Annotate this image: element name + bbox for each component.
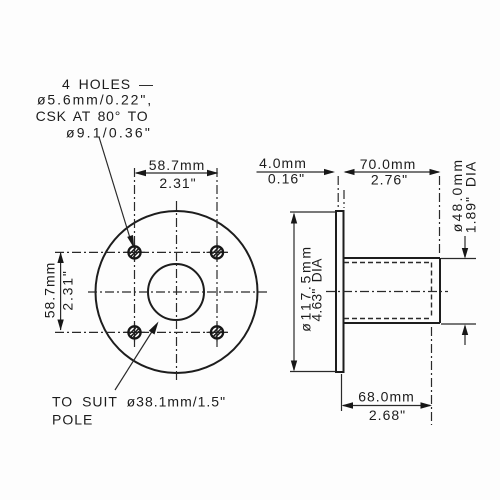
svg-text:TO SUIT ø38.1mm/1.5": TO SUIT ø38.1mm/1.5": [52, 394, 226, 410]
svg-text:POLE: POLE: [52, 412, 93, 428]
svg-text:CSK AT 80° TO: CSK AT 80° TO: [36, 108, 149, 124]
svg-text:0.16": 0.16": [268, 171, 305, 187]
svg-text:2.76": 2.76": [371, 172, 408, 188]
svg-text:2.68": 2.68": [369, 407, 406, 423]
svg-text:58.7mm: 58.7mm: [149, 157, 206, 173]
svg-text:2.31": 2.31": [159, 175, 196, 191]
svg-text:70.0mm: 70.0mm: [360, 156, 417, 172]
svg-text:2.31": 2.31": [60, 269, 76, 310]
svg-text:4.63" DIA: 4.63" DIA: [309, 258, 325, 322]
svg-text:1.89" DIA: 1.89" DIA: [463, 161, 479, 233]
svg-text:4 HOLES —: 4 HOLES —: [62, 76, 154, 92]
svg-text:58.7mm: 58.7mm: [42, 262, 58, 319]
svg-text:68.0mm: 68.0mm: [358, 389, 415, 405]
svg-text:4.0mm: 4.0mm: [259, 155, 307, 171]
svg-text:ø5.6mm/0.22",: ø5.6mm/0.22",: [37, 92, 153, 108]
svg-text:ø9.1/0.36": ø9.1/0.36": [66, 125, 152, 141]
